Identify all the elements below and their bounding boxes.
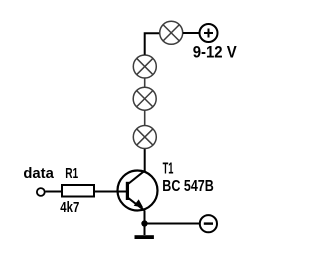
wire resistor to base xyxy=(94,191,118,193)
input terminal node xyxy=(37,188,45,196)
battery + terminal xyxy=(200,24,218,42)
svg-text:R1: R1 xyxy=(65,165,78,182)
wire input to resistor xyxy=(45,191,61,193)
svg-text:BC 547B: BC 547B xyxy=(162,178,214,195)
lamp L1 (top horizontal) xyxy=(160,21,183,44)
resistor R1 xyxy=(62,185,94,197)
wire emitter down xyxy=(144,210,146,224)
lamp L4 (bottom) xyxy=(133,126,156,149)
svg-text:data: data xyxy=(23,165,54,182)
ground xyxy=(135,224,154,240)
svg-text:9-12 V: 9-12 V xyxy=(193,44,237,62)
wire L1 to plus terminal xyxy=(183,32,199,34)
svg-text:T1: T1 xyxy=(163,160,174,177)
wire collector up xyxy=(144,149,146,171)
svg-text:4k7: 4k7 xyxy=(60,199,79,216)
junction node xyxy=(141,220,147,226)
transistor T1 xyxy=(117,170,158,210)
battery - terminal xyxy=(200,215,217,232)
lamp L3 xyxy=(133,87,156,110)
wire L2 up and corner to L1 xyxy=(145,33,160,55)
lamp L2 xyxy=(133,55,156,78)
wire L4 to L3 xyxy=(144,110,146,125)
wire L3 to L2 xyxy=(144,78,146,87)
wire junction to minus terminal xyxy=(145,223,200,225)
